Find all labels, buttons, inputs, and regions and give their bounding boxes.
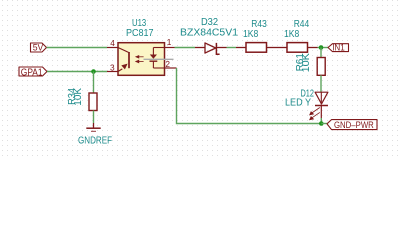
photodiode of U13 [150, 48, 165, 69]
resistor R44 [277, 19, 318, 52]
wire R34 to ground [93, 111, 95, 124]
global label GPA1 [19, 67, 47, 78]
svg-text:1: 1 [167, 37, 172, 47]
svg-text:U13: U13 [132, 18, 147, 29]
svg-text:10K: 10K [73, 88, 84, 106]
svg-text:5V: 5V [33, 43, 44, 54]
resistor R61 [295, 53, 325, 76]
optocoupler U13 [118, 18, 165, 76]
junction node at R34 [91, 69, 96, 74]
svg-text:1K8: 1K8 [243, 29, 259, 40]
pin 1 [165, 37, 175, 47]
svg-text:10K: 10K [301, 53, 312, 73]
base line (gray) of U13 [144, 58, 174, 60]
wire junction to GND-PWR label [321, 123, 327, 125]
svg-text:2: 2 [165, 59, 170, 69]
resistor R43 [236, 19, 277, 52]
global label GND-PWR [327, 120, 377, 132]
svg-text:GPA1: GPA1 [21, 67, 43, 78]
svg-text:3: 3 [110, 62, 115, 72]
wire U13 pin2 down and across to GND-PWR [177, 68, 322, 124]
svg-text:GND–PWR: GND–PWR [334, 120, 374, 131]
wire junction down to R34 [93, 72, 95, 94]
svg-text:LED Y: LED Y [285, 98, 311, 109]
wire junction down to R61 [320, 48, 322, 58]
resistor R34 [67, 88, 97, 111]
svg-text:1K8: 1K8 [284, 29, 300, 40]
pin 4 [107, 38, 118, 48]
pin 3 [107, 62, 118, 72]
zener diode D32 [180, 17, 238, 54]
LED D12 [285, 88, 328, 118]
junction node GND-PWR [319, 121, 324, 126]
global label IN1 [328, 43, 349, 53]
wire GPA1 to U13 pin 3 [47, 71, 107, 73]
wire R61 to D12 [320, 75, 322, 92]
junction node IN1 [319, 45, 324, 50]
wire D32 to R43 [227, 47, 237, 49]
svg-text:IN1: IN1 [332, 43, 345, 53]
svg-text:GNDREF: GNDREF [78, 136, 112, 147]
svg-text:4: 4 [110, 38, 115, 48]
global label 5V [31, 43, 47, 54]
power symbol GNDREF [78, 123, 112, 147]
LED light arrows [310, 108, 320, 120]
internal LED of U13 [118, 48, 130, 72]
pin 2 [165, 59, 177, 69]
wire 5V to U13 pin 4 [47, 47, 108, 49]
light arrows inside U13 [136, 56, 144, 63]
wire D12 to bottom rail [320, 118, 322, 124]
wire R44 to junction [318, 47, 329, 49]
svg-text:BZX84C5V1: BZX84C5V1 [180, 27, 238, 38]
wire U13 pin1 to D32 [175, 47, 196, 49]
svg-text:PC817: PC817 [126, 28, 154, 39]
